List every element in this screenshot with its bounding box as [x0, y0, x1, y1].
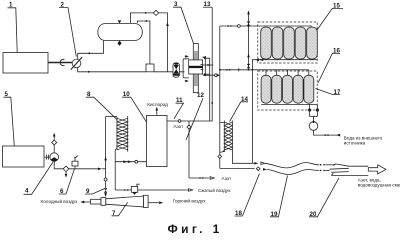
svg-text:4: 4	[25, 187, 29, 194]
bracket loop 2	[204, 57, 210, 121]
coil8 downpipe to air line	[115, 148, 117, 190]
svg-text:Азот: Азот	[222, 176, 233, 181]
turboexpander 3 shaft bar	[193, 44, 198, 93]
water drain risers with valves	[308, 104, 319, 121]
riser to cylinder manifolds	[219, 26, 221, 168]
vent valve on tank top	[118, 20, 122, 23]
spray nozzle 20	[330, 164, 369, 176]
regulator valve 6	[72, 156, 78, 169]
junction dot	[145, 12, 147, 14]
bank16 bottom manifold	[261, 103, 317, 105]
bracket loop 1 with arrows	[203, 56, 206, 76]
drain valve under tank	[117, 41, 121, 46]
cold riser to coil8 top and vortex tube	[105, 117, 107, 197]
moisture separator capsule	[173, 63, 179, 78]
corner up to bank15 bottom manifold with arrows	[252, 58, 264, 69]
inlet arrow into vortex chamber	[104, 193, 107, 197]
water suction line from external source	[314, 130, 341, 136]
hose 18 feed from coil	[232, 151, 252, 164]
text water from external source	[344, 135, 383, 145]
shaft coupling motor to compressor	[48, 59, 72, 65]
svg-text:источника: источника	[344, 141, 366, 146]
svg-text:Холодный воздух: Холодный воздух	[40, 198, 78, 204]
label 2	[59, 2, 76, 57]
hose 19 feed from riser	[220, 167, 255, 169]
flow arrow up on riser	[104, 157, 107, 161]
nitrogen line 13 vertical and corner down	[167, 7, 212, 121]
label 4	[24, 162, 54, 194]
flow arrow into riser	[98, 168, 106, 171]
dashed enclosure bank 16	[258, 71, 317, 110]
bank15 bottom manifold	[260, 59, 317, 61]
label 5	[4, 91, 15, 146]
label 20	[309, 178, 339, 218]
junction dot riser bottom	[223, 150, 225, 152]
svg-text:Азот, вода,: Азот, вода,	[358, 177, 381, 182]
wire expander outlet to riser	[204, 74, 220, 77]
heat exchanger coil 8	[117, 116, 128, 152]
svg-text:Фиг. 1: Фиг. 1	[168, 222, 223, 235]
junction dot	[88, 71, 90, 73]
hot air arrow	[148, 201, 163, 204]
outline arrow outlet	[368, 165, 386, 174]
hose 18 feed riser from manifolds	[251, 70, 253, 164]
filter diamond	[153, 10, 158, 15]
main discharge line	[78, 68, 185, 72]
hose 18 with arrows	[252, 162, 335, 168]
svg-text:Кислород: Кислород	[147, 102, 168, 107]
coupling unit5 to fan	[44, 155, 50, 160]
expander right ports	[201, 65, 204, 70]
label 13	[203, 1, 212, 8]
nitrogen outlet line bottom	[189, 177, 214, 180]
charge riser with check valves	[247, 11, 251, 71]
wire riser to coil8	[106, 116, 117, 118]
junction dot	[88, 52, 90, 54]
vortex tube 7	[91, 195, 149, 207]
check valve on riser	[104, 188, 108, 192]
gauge circle on riser	[104, 178, 107, 181]
svg-text:водовоздушная смесь: водовоздушная смесь	[358, 183, 400, 188]
label 12	[186, 92, 204, 140]
wire expander side port	[203, 64, 213, 66]
bypass loop around separator	[183, 59, 189, 78]
wire compressor suction to receiver bottom	[78, 41, 104, 60]
air line to oxygen column	[115, 160, 146, 163]
wire filter to downcomer x167.5	[159, 13, 168, 72]
valve circle on nitrogen line	[178, 120, 181, 123]
gas cylinders bank 15	[261, 27, 318, 59]
junction dot on line 13	[211, 102, 213, 104]
heat exchanger coil 14	[220, 121, 233, 153]
compressed air line	[115, 189, 192, 192]
dashed enclosure bank 15	[258, 22, 317, 63]
label 3	[173, 1, 193, 43]
charge line and bank16 top manifold	[219, 68, 309, 71]
label 15	[317, 2, 343, 30]
label 9	[85, 188, 104, 195]
label 1	[8, 2, 18, 52]
bank 15 top manifold	[220, 25, 312, 28]
receiver tank	[98, 24, 143, 41]
nitrogen downpipe	[188, 121, 190, 178]
svg-text:Азот: Азот	[174, 124, 185, 129]
svg-text:Вода из внешнего: Вода из внешнего	[344, 135, 383, 140]
label 16	[318, 47, 340, 83]
gas cylinders bank 16 with necks	[266, 70, 309, 75]
label 19	[270, 176, 288, 219]
oxygen vent arrow	[156, 107, 159, 116]
turboexpander bearing block	[189, 60, 203, 74]
label 7	[112, 202, 128, 217]
label 8	[86, 91, 117, 120]
inlet valve on main line	[146, 64, 154, 72]
diamond valve on line	[63, 166, 69, 172]
line from fan down and right	[54, 161, 98, 168]
svg-text:Горячий воздух: Горячий воздух	[173, 197, 206, 203]
aftercooler fan 4	[50, 153, 59, 162]
wire tank top to inlet valve of line	[137, 21, 150, 64]
label 10	[122, 91, 154, 134]
wire tank top to filter diamond	[130, 13, 153, 23]
expander inlet stub arrows	[185, 55, 189, 82]
hose 19 with arrows	[256, 167, 329, 175]
label 18	[235, 174, 260, 218]
diamond valve on downfeed	[218, 155, 222, 159]
drain arrow under diamond	[65, 172, 68, 178]
motor unit 1	[3, 53, 48, 74]
label 11	[174, 97, 184, 119]
reducing valve 9b on air line	[131, 184, 139, 195]
junction dot	[145, 20, 147, 22]
water pump	[309, 121, 318, 131]
text nitrogen water mixture	[358, 177, 400, 187]
label 17	[316, 89, 341, 96]
label 14	[230, 96, 249, 122]
svg-text:12: 12	[197, 92, 204, 99]
cold air arrow	[80, 201, 90, 204]
compressor 2	[71, 57, 82, 69]
vent valve above fan	[52, 133, 57, 153]
label 6	[59, 169, 75, 195]
valve diamond on downpipe	[187, 125, 191, 129]
oxygen column 10	[147, 115, 168, 166]
svg-text:Сжатый воздух: Сжатый воздух	[198, 187, 231, 193]
unit 5 rect	[3, 146, 45, 167]
flow arrow up on downcomer	[166, 22, 169, 26]
